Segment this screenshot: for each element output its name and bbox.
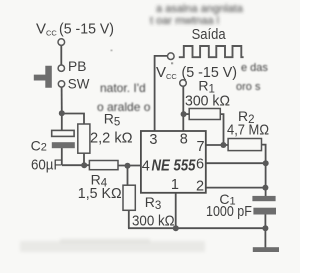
svg-text:a asalna angnlata: a asalna angnlata — [156, 3, 244, 15]
wire R3 bottom down — [128, 210, 130, 228]
capacitor C1 bottom plate — [253, 208, 276, 215]
capacitor C2 bottom plate — [52, 142, 75, 148]
svg-text:4,7 MΩ: 4,7 MΩ — [227, 122, 269, 139]
svg-text:NE 555: NE 555 — [152, 157, 197, 174]
ghost bottom band — [20, 239, 205, 252]
svg-text:2: 2 — [196, 178, 204, 194]
node junction bottom pin1 — [173, 225, 179, 231]
resistor R5 — [78, 124, 90, 153]
wire top terminal to PB — [60, 45, 62, 65]
op-amp U1 NE 555 box — [141, 131, 206, 193]
wire pin 1 down — [175, 193, 177, 228]
node junction pin 6 — [263, 160, 269, 166]
ghost bleedthrough text top right — [150, 3, 244, 27]
wire R5 bottom — [83, 153, 85, 165]
wire Vcc to pin 8 — [182, 86, 184, 131]
output square waveform — [179, 46, 244, 57]
svg-text:8: 8 — [180, 132, 188, 148]
capacitor C2 top plate — [52, 130, 74, 136]
wire junction to R3 top — [127, 166, 129, 186]
svg-text:oro s: oro s — [236, 81, 261, 93]
speck artifact 2 — [111, 50, 113, 52]
wire junction to C2 — [61, 114, 63, 131]
node junction below SW — [59, 110, 65, 116]
svg-text:3: 3 — [149, 132, 157, 148]
wire C2 bottom down — [61, 148, 63, 165]
terminal Vcc right — [180, 80, 187, 87]
svg-text:1000 pF: 1000 pF — [206, 203, 252, 220]
capacitor C1 top plate — [252, 196, 275, 201]
svg-text:1,5 KΩ: 1,5 KΩ — [78, 185, 122, 202]
svg-text:300 kΩ: 300 kΩ — [132, 213, 175, 230]
node junction bottom right — [262, 225, 268, 231]
node junction R4 right — [125, 163, 131, 169]
node junction R1 left — [181, 111, 187, 117]
resistor R2 — [228, 139, 261, 151]
node junction R5 bottom — [81, 162, 87, 168]
contact PB — [58, 65, 64, 71]
terminal Vcc top-left — [58, 39, 65, 46]
svg-text:SW: SW — [68, 76, 90, 92]
svg-text:300 kΩ: 300 kΩ — [185, 92, 230, 109]
wire R1 to pin 7 — [220, 114, 223, 145]
ground — [253, 247, 279, 252]
speck artifact — [171, 62, 173, 64]
resistor R1 — [189, 109, 220, 120]
svg-text:6: 6 — [196, 156, 204, 172]
ghost bleedthrough text mid left — [97, 81, 151, 114]
svg-text:1: 1 — [171, 177, 179, 193]
wire pin 7 — [206, 144, 228, 146]
svg-text:PB: PB — [68, 58, 86, 74]
wire junction to R1 — [183, 113, 189, 115]
resistor R3 — [123, 185, 135, 210]
wire SW to junction — [61, 87, 63, 113]
svg-text:Saída: Saída — [192, 26, 227, 43]
wire C2 to R4 — [62, 164, 90, 166]
svg-text:nator. I'd: nator. I'd — [100, 81, 146, 95]
svg-text:60µF: 60µF — [31, 156, 62, 173]
resistor R4 — [89, 161, 118, 170]
svg-text:2,2 kΩ: 2,2 kΩ — [90, 129, 133, 146]
wire output to pin 3 — [155, 56, 168, 131]
bottom rail wire — [128, 227, 265, 229]
node junction pin 7 — [220, 142, 226, 148]
wire junction to R5 top — [62, 114, 84, 125]
ghost bleedthrough text right column — [236, 62, 268, 93]
wire R4 to pin 4 — [118, 165, 141, 167]
pushbutton actuator SW — [34, 66, 52, 88]
wire C1 bottom — [264, 214, 266, 228]
svg-text:(5 -15 V): (5 -15 V) — [182, 64, 238, 81]
svg-text:4: 4 — [142, 158, 150, 174]
svg-text:(5 -15 V): (5 -15 V) — [59, 20, 114, 37]
svg-text:e das: e das — [241, 62, 268, 74]
wire pin 6 — [206, 162, 266, 164]
svg-text:7: 7 — [197, 139, 205, 155]
node junction pin 2 — [262, 185, 268, 191]
contact SW — [58, 81, 64, 87]
wire pin 2 — [206, 187, 266, 189]
wire rail to ground — [264, 228, 266, 247]
wire R2 to rail — [262, 145, 266, 197]
output terminal circle — [168, 53, 175, 60]
